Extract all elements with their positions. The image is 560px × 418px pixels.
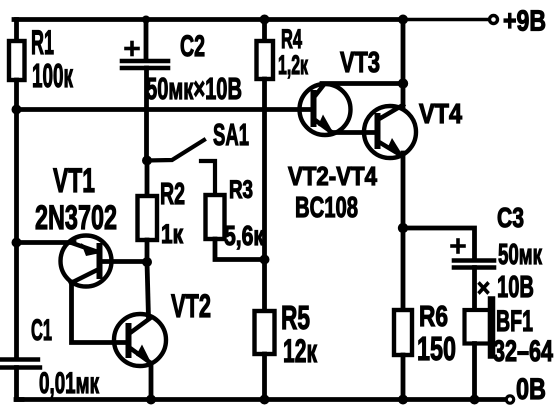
svg-text:1,2к: 1,2к xyxy=(278,50,308,80)
svg-text:C1: C1 xyxy=(31,314,52,347)
svg-text:0,01мк: 0,01мк xyxy=(39,367,100,400)
node junction left rail y110 xyxy=(12,105,22,115)
wire horizontal bus y110 from left rail to VT3 base xyxy=(17,107,314,112)
node junction VT1 base / R2 / VT2 collector xyxy=(142,257,152,267)
capacitor C3 plates xyxy=(454,261,494,268)
svg-text:50мк: 50мк xyxy=(498,239,542,271)
wire C2 bottom lead to SA1 pivot xyxy=(144,68,149,160)
svg-text:VT3: VT3 xyxy=(340,47,380,79)
node junction R6 on bottom rail xyxy=(398,395,408,405)
svg-text:R3: R3 xyxy=(229,176,253,204)
switch SA1 blade xyxy=(147,140,204,161)
svg-text:VT1: VT1 xyxy=(53,162,95,200)
switch SA1 fixed contact xyxy=(201,161,215,196)
terminal 0V xyxy=(506,396,513,403)
wire left rail R1 bottom to C1 xyxy=(14,80,19,358)
speaker BF1 body xyxy=(465,310,491,344)
capacitor C1 xyxy=(0,360,40,368)
wire C3 bottom to BF1 xyxy=(472,268,477,312)
svg-text:R5: R5 xyxy=(281,299,310,336)
wire VT1 collector to VT2 base xyxy=(72,282,127,343)
capacitor C3 plus sign xyxy=(452,240,464,252)
svg-text:100к: 100к xyxy=(32,57,73,94)
wire VT3 collector to right rail xyxy=(322,81,403,86)
svg-text:VT2: VT2 xyxy=(171,288,211,324)
speaker BF1 bar xyxy=(488,300,496,355)
svg-text:5,6к: 5,6к xyxy=(224,220,265,251)
wire R6 bottom lead xyxy=(401,355,406,400)
node junction right rail on top rail xyxy=(398,15,408,25)
VT4 base bar xyxy=(375,116,381,146)
svg-text:SA1: SA1 xyxy=(213,117,249,152)
resistor R3 xyxy=(206,195,225,239)
VT1 emitter wire from left rail xyxy=(17,240,75,245)
VT1 emitter diagonal with arrow to base (PNP) xyxy=(72,243,95,251)
svg-text:0В: 0В xyxy=(516,373,546,406)
resistor R6 xyxy=(394,310,412,355)
svg-text:C2: C2 xyxy=(180,30,205,63)
svg-text:1к: 1к xyxy=(161,219,183,249)
resistor R1 xyxy=(9,41,25,80)
wire bottom 0V rail xyxy=(16,397,505,402)
wire R2 top lead xyxy=(145,161,150,198)
wire branch to C3 xyxy=(403,228,475,259)
terminal +9V xyxy=(490,16,498,24)
node junction VT3 collector on right rail xyxy=(398,78,408,88)
node junction R3/R5 on middle rail xyxy=(260,255,270,265)
resistor R2 xyxy=(138,196,158,240)
svg-text:R2: R2 xyxy=(160,176,185,211)
svg-text:VT2-VT4: VT2-VT4 xyxy=(288,161,377,191)
svg-text:VT4: VT4 xyxy=(419,98,462,129)
svg-text:C3: C3 xyxy=(497,202,524,233)
svg-text:32–64: 32–64 xyxy=(493,335,553,368)
wire VT2 emitter to bottom rail xyxy=(149,363,154,400)
resistor R5 xyxy=(255,311,275,354)
VT1 base bar xyxy=(97,246,103,276)
wire VT3 emitter to VT4 base xyxy=(330,130,376,135)
wire right rail top segment xyxy=(401,20,406,107)
capacitor C2 plates xyxy=(122,61,168,68)
svg-text:12к: 12к xyxy=(283,333,318,369)
wire BF1 bottom to bottom rail xyxy=(472,344,477,400)
wire R5 bottom lead xyxy=(262,354,267,400)
transistor VT4 xyxy=(364,105,416,158)
node junction C2 top on rail xyxy=(142,16,150,24)
VT2 base bar xyxy=(126,326,132,355)
wire R4 top lead xyxy=(262,20,267,43)
VT4 collector diagonal xyxy=(379,105,403,119)
VT3 collector diagonal xyxy=(315,85,324,97)
VT3 base bar xyxy=(311,93,317,124)
VT3 emitter diagonal with arrow (NPN) xyxy=(315,120,330,131)
VT4 emitter diagonal with arrow (NPN) xyxy=(379,142,399,154)
svg-text:50мк×10В: 50мк×10В xyxy=(146,71,242,106)
resistor R4 xyxy=(257,41,274,79)
VT1 base lead to junction xyxy=(101,259,147,264)
svg-text:BC108: BC108 xyxy=(295,192,358,224)
VT1 collector diagonal xyxy=(71,270,97,283)
node junction speaker branch xyxy=(398,223,408,233)
transistor VT2 xyxy=(114,314,166,366)
svg-text:+9В: +9В xyxy=(503,6,546,38)
capacitor C2 plus sign xyxy=(126,43,138,55)
wire R3 bottom to middle rail xyxy=(215,239,262,260)
wire middle rail R4 bottom to R5 top xyxy=(262,79,267,312)
wire R2 bottom lead xyxy=(145,240,150,262)
wire left rail top lead of R1 xyxy=(14,20,19,43)
transistor VT3 xyxy=(300,84,351,135)
svg-text:150: 150 xyxy=(417,330,456,367)
transistor VT1 xyxy=(17,236,148,287)
node junction VT2 emitter on bottom rail xyxy=(146,395,156,405)
svg-text:R6: R6 xyxy=(419,301,448,333)
wire C1 bottom to bottom rail xyxy=(17,368,23,400)
wire right rail VT4 emitter down to R6 xyxy=(401,153,406,311)
node junction SA1 pivot xyxy=(142,156,152,166)
wire top +9V rail xyxy=(14,17,404,22)
VT2 emitter diagonal with arrow (NPN) xyxy=(130,348,148,361)
node junction BF1 on bottom rail xyxy=(470,395,480,405)
node junction R5 on bottom rail xyxy=(260,395,270,405)
node junction R4 top on rail xyxy=(260,15,270,25)
wire top rail to terminal xyxy=(404,18,488,22)
wire VT2 collector to junction xyxy=(147,262,149,318)
VT2 collector diagonal xyxy=(130,319,149,333)
node junction left rail VT1 emitter xyxy=(12,238,22,248)
svg-text:2N3702: 2N3702 xyxy=(35,199,117,237)
svg-text:BF1: BF1 xyxy=(496,305,533,338)
svg-text:10В: 10В xyxy=(497,269,534,304)
capacitor C2 top lead xyxy=(144,20,149,60)
